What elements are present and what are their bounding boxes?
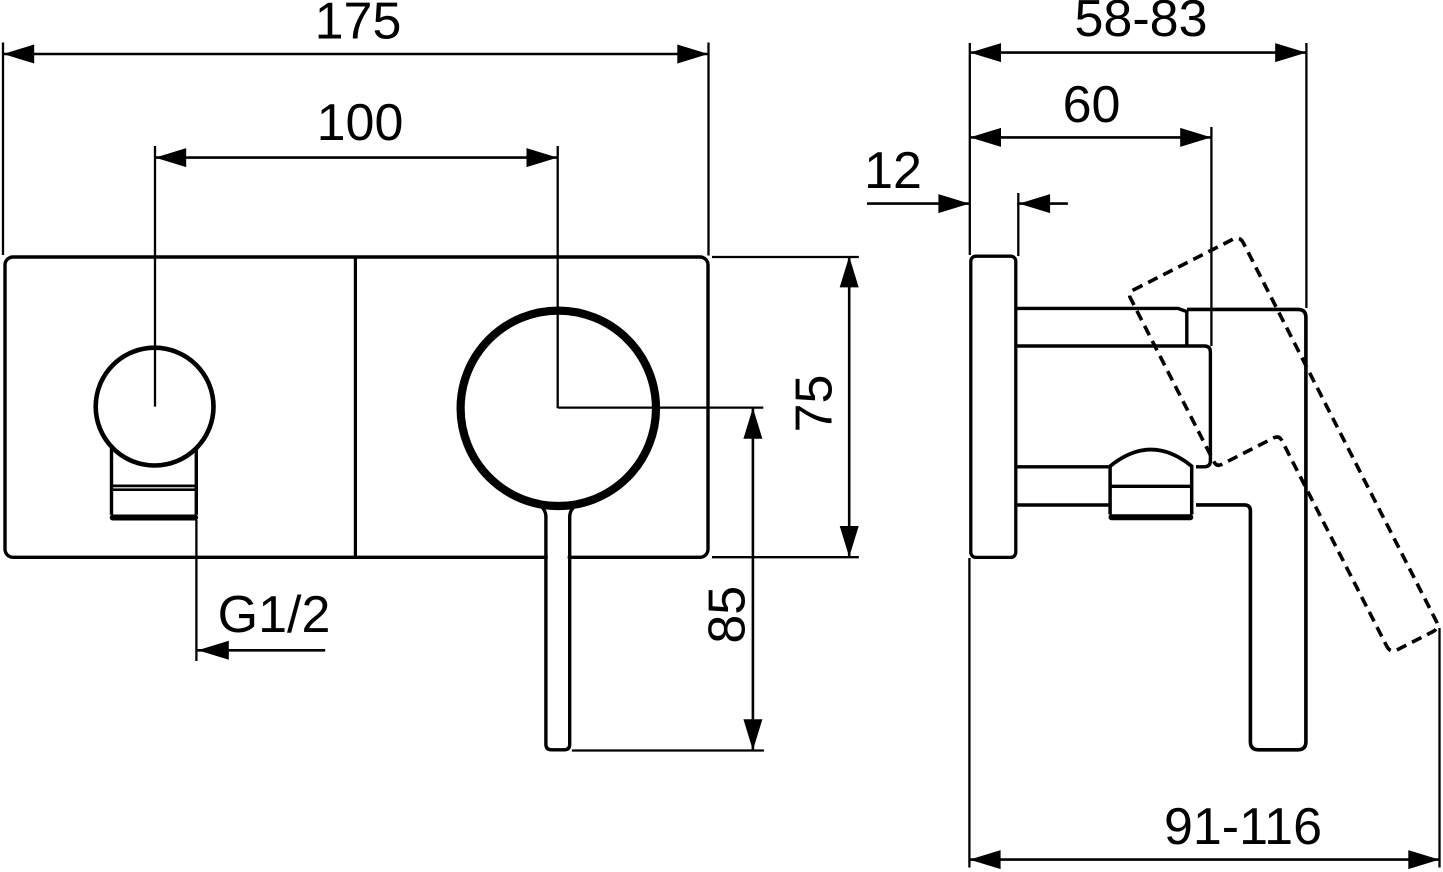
dimension 12 left tail line <box>867 202 970 205</box>
front plate divider line <box>354 257 357 557</box>
svg-text:175: 175 <box>315 0 402 51</box>
side view top supply pipe <box>1017 308 1186 346</box>
dimension 85 bottom extension line <box>572 749 764 751</box>
side view mixer body <box>1017 346 1210 467</box>
svg-text:60: 60 <box>1063 76 1121 134</box>
side view spout right wall <box>1190 465 1194 515</box>
svg-text:85: 85 <box>698 586 756 644</box>
dimension 85 top arrow <box>743 408 762 439</box>
dimension 12 left arrow pointing right <box>938 194 969 213</box>
dimension 100 right extension line to lever center <box>557 146 559 408</box>
front spout bottom thick edge <box>113 515 196 521</box>
svg-text:75: 75 <box>785 375 843 433</box>
svg-text:100: 100 <box>317 94 404 152</box>
white gap in plate bottom edge at lever stem <box>548 550 568 562</box>
dimension 60 right extension line <box>1210 127 1212 346</box>
side view spout band line <box>1109 485 1193 488</box>
dimension 75 bottom extension line <box>712 556 859 558</box>
dimension 60 right arrow <box>1180 128 1211 147</box>
G1/2 extension line <box>195 520 197 661</box>
G1/2 arrow <box>198 641 229 660</box>
G1/2 leader line <box>198 649 326 652</box>
dimension 60 left arrow <box>970 128 1001 147</box>
dimension 175 left extension line <box>2 43 4 256</box>
dimension 12 right arrow pointing left <box>1019 194 1050 213</box>
front view wall plate <box>5 257 708 557</box>
front spout escutcheon circle <box>96 348 214 466</box>
dimension 100 line <box>155 156 558 159</box>
svg-text:58-83: 58-83 <box>1075 0 1208 48</box>
dimension 85 line <box>752 408 755 751</box>
svg-text:91-116: 91-116 <box>1164 798 1322 856</box>
side view lever handle raised position (dashed) <box>1128 236 1440 685</box>
svg-text:12: 12 <box>864 142 922 200</box>
svg-text:G1/2: G1/2 <box>218 586 331 644</box>
dimension 75 top arrow <box>840 256 859 287</box>
dimension 175 right arrow <box>677 45 708 64</box>
dimension 175 left arrow <box>3 45 34 64</box>
dimension 85 bottom arrow <box>743 719 762 750</box>
dimension 12 right tail line <box>1019 202 1068 205</box>
dimension 100 left extension line to spout center <box>154 146 156 407</box>
side view spout left wall <box>1108 465 1112 515</box>
front lever escutcheon big circle <box>461 311 656 506</box>
front spout body right wall <box>195 447 198 515</box>
dimension 91-116 right arrow <box>1408 850 1439 869</box>
side view wall plate <box>971 256 1016 557</box>
dimension 58-83 line <box>970 51 1307 54</box>
dimension 91-116 left arrow <box>970 850 1001 869</box>
front spout band line lower <box>111 488 198 491</box>
dimension 175 line <box>3 53 709 56</box>
side view spout bottom thick edge <box>1112 514 1191 520</box>
side view lever handle (solid) <box>1187 309 1306 749</box>
dimension 58-83 right extension line <box>1305 43 1307 308</box>
side view lower pipe bottom edge <box>1017 503 1108 506</box>
dimension 58-83 left extension line <box>969 43 971 255</box>
dimension 100 right arrow <box>527 148 558 167</box>
dimension 91-116 line <box>969 858 1439 861</box>
dimension 91-116 left extension line <box>968 558 970 868</box>
dimension 75 line <box>848 256 851 557</box>
front lever stem outline <box>535 503 581 750</box>
dimension 91-116 right extension line <box>1438 628 1440 868</box>
dimension 100 left arrow <box>155 148 186 167</box>
front spout body left wall <box>110 447 113 515</box>
dimension 58-83 right arrow <box>1275 43 1306 62</box>
dimension 12 right extension line <box>1017 193 1019 256</box>
side view lower pipe top edge <box>1017 465 1108 468</box>
dimension 175 right extension line <box>707 43 709 256</box>
dimension 58-83 left arrow <box>970 43 1001 62</box>
side view spout dome arc <box>1110 450 1192 467</box>
front spout band line upper <box>111 484 198 487</box>
dimension 85 top extension line <box>558 406 763 408</box>
dimension 75 bottom arrow <box>840 526 859 557</box>
dimension 60 line <box>970 136 1212 139</box>
dimension 75 top extension line <box>712 256 859 258</box>
